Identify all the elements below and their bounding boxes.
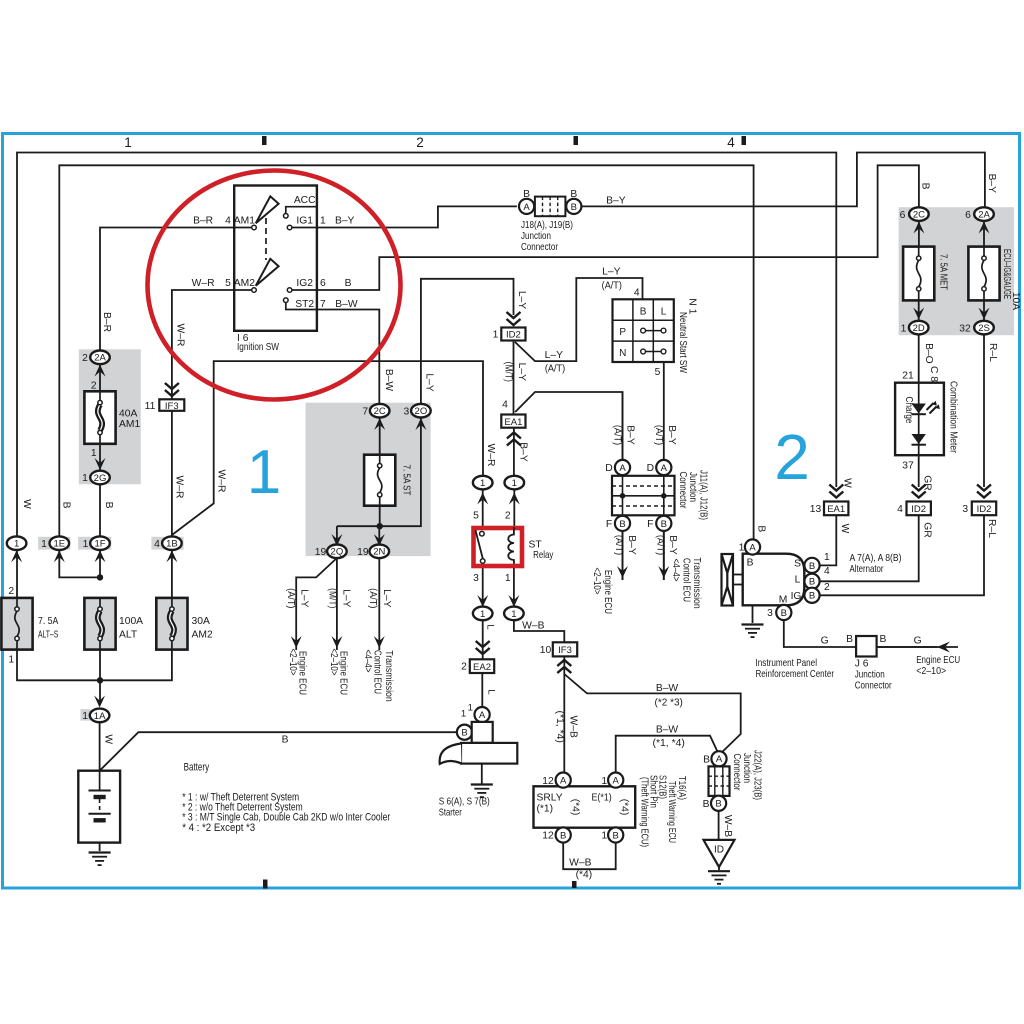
ignition switch AM1 stub bbox=[234, 227, 253, 229]
svg-text:L: L bbox=[484, 624, 495, 629]
connector IF3(10) bbox=[553, 642, 577, 656]
wire alternator B wire drop bbox=[753, 539, 755, 547]
svg-text:* 4 : *2 Except *3: * 4 : *2 Except *3 bbox=[182, 822, 255, 834]
node node alternator L bbox=[804, 574, 819, 589]
svg-text:13: 13 bbox=[810, 504, 822, 515]
svg-text:Battery: Battery bbox=[184, 762, 210, 774]
wire 2A to IG fuse bbox=[983, 221, 985, 247]
wire starter body to ground bbox=[481, 764, 483, 784]
node node J11 B left bbox=[615, 516, 630, 531]
node node starter B bbox=[457, 725, 472, 740]
alternator pulley bbox=[722, 554, 743, 606]
junction 1F/1E junction bbox=[97, 574, 103, 580]
node node 1E bbox=[50, 536, 70, 550]
svg-text:4: 4 bbox=[634, 288, 640, 299]
connector ID2(4) bbox=[907, 502, 931, 516]
svg-text:1: 1 bbox=[82, 711, 88, 722]
svg-text:GR: GR bbox=[921, 522, 932, 537]
wire B-Y circle to relay coil bbox=[513, 489, 515, 527]
svg-text:F: F bbox=[606, 519, 612, 530]
wire SRLY bottom link bbox=[563, 843, 616, 869]
svg-text:4: 4 bbox=[502, 399, 508, 410]
red highlight ellipse around ignition switch bbox=[148, 171, 401, 400]
svg-text:12: 12 bbox=[542, 776, 554, 787]
wire ST fuse to bus bbox=[379, 506, 381, 527]
wire 1B fuse top bbox=[171, 550, 173, 598]
arrow into 2O bbox=[415, 418, 426, 430]
arrow engine ECU j11 bbox=[617, 566, 628, 578]
contact IG2 bbox=[287, 288, 292, 293]
arrow into 1F bbox=[95, 550, 106, 562]
svg-text:1: 1 bbox=[601, 831, 607, 842]
junction fuse bus junction bbox=[97, 677, 103, 683]
svg-text:1: 1 bbox=[247, 438, 281, 507]
node node alternator IG bbox=[804, 588, 819, 603]
svg-text:W–R: W–R bbox=[192, 278, 215, 289]
arrow relay right bbox=[509, 493, 520, 505]
svg-text:W–R: W–R bbox=[174, 476, 185, 499]
node node J11 B right bbox=[656, 516, 671, 531]
svg-text:B–O: B–O bbox=[923, 343, 934, 364]
svg-text:J11(A), J12(B): J11(A), J12(B) bbox=[698, 470, 709, 520]
wire 2C(7) to ST fuse bbox=[379, 418, 381, 455]
connector EA1(13) bbox=[824, 502, 848, 516]
svg-text:Combination Meter: Combination Meter bbox=[948, 381, 959, 453]
arrow trans ECU j11 bbox=[658, 566, 669, 578]
wire B-W *2*3 branch bbox=[564, 674, 740, 753]
svg-text:2: 2 bbox=[505, 511, 511, 522]
svg-text:1: 1 bbox=[480, 478, 485, 489]
arrow below relay right bbox=[508, 595, 519, 607]
wire 2Q to engine ECU M/T bbox=[336, 558, 338, 650]
svg-text:7. 5A: 7. 5A bbox=[38, 616, 58, 627]
svg-text:(A/T): (A/T) bbox=[653, 425, 664, 445]
svg-text:B: B bbox=[846, 634, 853, 645]
svg-text:Control ECU: Control ECU bbox=[372, 650, 383, 694]
svg-text:ALT–S: ALT–S bbox=[38, 629, 58, 640]
svg-text:B: B bbox=[613, 830, 619, 841]
node node SRLY A1 bbox=[608, 773, 623, 788]
node node 1B bbox=[162, 536, 182, 550]
svg-text:1: 1 bbox=[461, 709, 466, 720]
svg-text:B: B bbox=[920, 183, 931, 190]
svg-text:B: B bbox=[570, 189, 577, 200]
svg-text:5: 5 bbox=[473, 511, 479, 522]
ID ground triangle bbox=[704, 840, 735, 867]
svg-text:19: 19 bbox=[315, 547, 327, 558]
gray chip 1E bbox=[38, 537, 70, 550]
svg-text:B–R: B–R bbox=[101, 312, 112, 332]
gray chip 1F bbox=[78, 537, 111, 550]
svg-text:B: B bbox=[703, 799, 710, 810]
svg-text:F: F bbox=[647, 519, 653, 530]
svg-text:(A/T): (A/T) bbox=[367, 588, 378, 608]
arrow into 2A(6) bbox=[979, 222, 990, 234]
bottom scale tick 2 bbox=[572, 881, 577, 888]
wire ST2 B-W to 2C(7) bbox=[317, 310, 379, 404]
svg-text:B–Y: B–Y bbox=[986, 174, 997, 194]
svg-text:Neutral Start SW: Neutral Start SW bbox=[677, 312, 688, 373]
svg-text:(M/T): (M/T) bbox=[327, 588, 338, 608]
svg-text:EA1: EA1 bbox=[827, 504, 845, 515]
svg-text:C 8: C 8 bbox=[928, 366, 939, 382]
ignition switch IG1 stub bbox=[292, 227, 317, 229]
svg-text:B–Y: B–Y bbox=[518, 442, 529, 462]
svg-text:1: 1 bbox=[901, 323, 907, 334]
svg-text:7. 5A MET: 7. 5A MET bbox=[938, 254, 949, 291]
svg-text:7: 7 bbox=[362, 406, 368, 417]
svg-text:4: 4 bbox=[225, 215, 231, 226]
svg-text:A: A bbox=[619, 463, 626, 474]
svg-text:B: B bbox=[661, 519, 667, 530]
wire W-R from AM2 to IF3 to 1B bbox=[172, 290, 234, 536]
svg-text:EA1: EA1 bbox=[504, 417, 522, 428]
svg-text:2A: 2A bbox=[978, 210, 990, 221]
chevron ID2(1) bbox=[507, 312, 521, 325]
svg-text:2A: 2A bbox=[94, 353, 106, 364]
wire IG fuse to 2S bbox=[983, 300, 985, 321]
svg-text:IF3: IF3 bbox=[558, 645, 572, 656]
wire J11 B-Y arrows tails bbox=[623, 531, 664, 580]
svg-text:ALT: ALT bbox=[119, 629, 138, 640]
node node relay 1 left bbox=[473, 476, 493, 490]
wire 1E to 1F junction bbox=[59, 550, 100, 578]
svg-text:Ignition SW: Ignition SW bbox=[237, 342, 279, 353]
chevron IF3(11) bbox=[165, 383, 179, 396]
svg-text:W–B: W–B bbox=[568, 716, 579, 738]
svg-text:L–Y: L–Y bbox=[602, 267, 620, 278]
top scale tick 3 bbox=[742, 136, 747, 145]
svg-text:<2–10>: <2–10> bbox=[328, 649, 339, 676]
svg-text:L: L bbox=[661, 307, 667, 318]
contact ACC bbox=[284, 214, 289, 219]
node node 2A bbox=[90, 351, 110, 365]
node node SRLY B1 bbox=[608, 827, 623, 842]
svg-text:B: B bbox=[781, 608, 787, 619]
svg-text:B: B bbox=[703, 755, 710, 766]
svg-text:1: 1 bbox=[511, 609, 516, 620]
svg-text:J 6: J 6 bbox=[855, 658, 869, 669]
svg-text:1: 1 bbox=[480, 609, 485, 620]
node node relay 1 right bbox=[505, 476, 525, 490]
fuse 30A AM2 bbox=[156, 598, 187, 650]
svg-text:B–R: B–R bbox=[193, 215, 213, 226]
arrow into 1E bbox=[54, 550, 65, 562]
svg-text:Instrument Panel: Instrument Panel bbox=[756, 658, 818, 669]
connector EA1(4) bbox=[501, 415, 525, 428]
fuse 7.5A MET bbox=[903, 247, 934, 301]
arrow into 2C(7) bbox=[374, 418, 385, 430]
arrow engine ECU G bbox=[937, 642, 950, 653]
svg-text:N: N bbox=[619, 348, 626, 359]
svg-text:4: 4 bbox=[824, 566, 830, 577]
svg-text:5: 5 bbox=[655, 367, 661, 378]
bottom scale tick 1 bbox=[263, 880, 268, 889]
arrow into 2S bbox=[979, 308, 990, 320]
svg-text:A: A bbox=[716, 754, 723, 765]
node node 2O bbox=[411, 404, 431, 418]
wire W-B IF3(10) down to SRLY A12 bbox=[563, 656, 565, 772]
svg-text:2C: 2C bbox=[913, 210, 925, 221]
svg-text:B: B bbox=[571, 202, 577, 213]
svg-text:IG: IG bbox=[791, 591, 802, 602]
wire MET fuse to 2D bbox=[918, 300, 920, 321]
svg-text:ACC: ACC bbox=[294, 195, 316, 206]
battery ground bbox=[89, 853, 111, 866]
svg-text:SRLY: SRLY bbox=[537, 793, 563, 804]
svg-text:W: W bbox=[839, 524, 850, 534]
node node J22 B bbox=[711, 796, 726, 811]
wire L-Y M/T ID2(1) to EA1(4) bbox=[513, 341, 515, 415]
wire IG2 B to 2C bbox=[317, 165, 919, 290]
svg-text:(*4): (*4) bbox=[570, 799, 581, 816]
svg-text:6: 6 bbox=[320, 278, 326, 289]
svg-text:IG1: IG1 bbox=[296, 215, 313, 226]
wire W-R to ST relay bbox=[172, 361, 483, 535]
svg-text:Reinforcement Center: Reinforcement Center bbox=[756, 669, 835, 680]
node node 1A bbox=[90, 709, 110, 723]
svg-text:B–Y: B–Y bbox=[625, 425, 636, 445]
svg-text:ST: ST bbox=[529, 540, 543, 551]
svg-text:7: 7 bbox=[320, 299, 326, 310]
svg-text:W–R: W–R bbox=[485, 444, 496, 467]
svg-text:E(*1): E(*1) bbox=[592, 793, 612, 804]
svg-text:4: 4 bbox=[154, 539, 160, 550]
chevron EA1(13) bbox=[829, 485, 843, 498]
wire meter to ID2(4) bbox=[918, 455, 920, 487]
svg-text:B–Y: B–Y bbox=[606, 196, 626, 207]
svg-text:J22(A), J23(B): J22(A), J23(B) bbox=[752, 750, 763, 800]
svg-text:G: G bbox=[821, 636, 829, 647]
svg-text:B: B bbox=[809, 561, 815, 572]
svg-text:B–Y: B–Y bbox=[666, 425, 677, 445]
battery bbox=[78, 771, 120, 843]
wire battery minus to ground bbox=[99, 821, 101, 852]
op neutral start switch N1 bbox=[613, 299, 674, 362]
chevron ID2(4) bbox=[912, 485, 926, 498]
svg-text:D: D bbox=[647, 463, 654, 474]
chevron IF3(10) bbox=[557, 660, 571, 673]
node node 2G bbox=[90, 471, 110, 485]
svg-text:L: L bbox=[486, 689, 497, 694]
svg-text:L–Y: L–Y bbox=[381, 589, 392, 607]
wire N1 B-Y A/T left drop bbox=[622, 392, 624, 460]
svg-text:ST2: ST2 bbox=[295, 299, 314, 310]
svg-text:(M/T): (M/T) bbox=[503, 362, 514, 382]
svg-text:(*1): (*1) bbox=[537, 804, 554, 815]
wire J11 A wires through connector bbox=[623, 475, 664, 516]
svg-text:Transmission: Transmission bbox=[691, 557, 702, 609]
svg-text:2Q: 2Q bbox=[331, 547, 344, 558]
svg-text:IG2: IG2 bbox=[296, 278, 313, 289]
svg-text:B: B bbox=[461, 728, 467, 739]
wire battery to starter B bbox=[100, 732, 457, 771]
svg-text:5: 5 bbox=[225, 278, 231, 289]
op combination meter charge lamp bbox=[895, 383, 944, 456]
svg-text:2D: 2D bbox=[913, 323, 925, 334]
arrow into 2G bbox=[95, 458, 106, 470]
switch gang dashed link bbox=[265, 218, 267, 260]
svg-text:1: 1 bbox=[512, 478, 517, 489]
svg-text:2O: 2O bbox=[415, 406, 428, 417]
wire ID2(3) to alternator IG bbox=[820, 515, 984, 595]
wire J11 B wires down bbox=[623, 531, 664, 580]
svg-text:1F: 1F bbox=[94, 539, 105, 550]
gray shade MET/ECU-IG fuse block bbox=[899, 207, 1014, 335]
svg-text:1: 1 bbox=[468, 702, 473, 713]
gray shade AM1 fuse block bbox=[79, 349, 141, 484]
svg-text:EA2: EA2 bbox=[473, 662, 491, 673]
svg-text:L–Y: L–Y bbox=[516, 291, 527, 309]
svg-text:AM2: AM2 bbox=[192, 629, 213, 640]
node node J22 A bbox=[711, 751, 726, 766]
svg-text:2: 2 bbox=[824, 582, 830, 593]
node node 2C(6) bbox=[909, 207, 929, 221]
svg-text:ECU–IG&GAUGE: ECU–IG&GAUGE bbox=[1001, 249, 1012, 299]
node node 2A(6) bbox=[974, 207, 994, 221]
svg-text:S: S bbox=[794, 558, 801, 569]
contact ST2 bbox=[284, 298, 289, 303]
wire 1F to 2G bbox=[99, 484, 101, 577]
top scale tick 2 bbox=[574, 136, 579, 145]
wire AM1 fuse to 2G bbox=[99, 444, 101, 471]
node node J11 A right bbox=[656, 460, 671, 475]
ignition switch ACC stub bbox=[286, 207, 317, 214]
node node 2S bbox=[974, 321, 994, 335]
wire B-Y EA1(4) to relay circle bbox=[513, 428, 515, 476]
svg-text:A: A bbox=[560, 776, 567, 787]
svg-text:B: B bbox=[879, 634, 886, 645]
svg-text:B: B bbox=[345, 278, 352, 289]
svg-text:L–Y: L–Y bbox=[341, 589, 352, 607]
svg-text:B–W: B–W bbox=[656, 683, 679, 694]
svg-text:(*1, *4): (*1, *4) bbox=[554, 711, 565, 743]
svg-text:32: 32 bbox=[959, 323, 971, 334]
arrow into 2Q bbox=[331, 534, 342, 546]
svg-text:<2–10>: <2–10> bbox=[287, 649, 298, 676]
svg-text:B: B bbox=[640, 307, 647, 318]
svg-text:1B: 1B bbox=[166, 539, 178, 550]
connector EA2 bbox=[470, 659, 494, 673]
svg-text:Alternator: Alternator bbox=[850, 564, 884, 575]
svg-text:<4–4>: <4–4> bbox=[362, 650, 373, 673]
svg-text:Engine ECU: Engine ECU bbox=[338, 651, 349, 695]
svg-text:B: B bbox=[619, 519, 625, 530]
fuse 100A ALT bbox=[84, 598, 115, 650]
wire L-Y 2O to ID2(1) bbox=[421, 279, 514, 404]
wire J6 to engine ECU arrow bbox=[877, 646, 958, 648]
svg-text:1: 1 bbox=[505, 573, 511, 584]
node node J18 B bbox=[566, 199, 581, 214]
wire IG1 B-Y to junction connector A bbox=[317, 206, 517, 227]
wire 2S to ID2(3) bbox=[983, 334, 985, 487]
node node alternator S bbox=[804, 558, 819, 573]
svg-text:(*2 *3): (*2 *3) bbox=[655, 698, 683, 709]
wire 2N to transmission ECU bbox=[378, 558, 380, 650]
wire 2Q to engine ECU A/T bbox=[296, 558, 337, 650]
svg-text:Connector: Connector bbox=[521, 242, 558, 253]
svg-text:L: L bbox=[795, 575, 801, 586]
node node 2D bbox=[909, 321, 929, 335]
svg-text:ID2: ID2 bbox=[506, 330, 521, 341]
svg-text:Junction: Junction bbox=[855, 669, 885, 680]
svg-text:3: 3 bbox=[404, 406, 410, 417]
node node SRLY A12 bbox=[556, 773, 571, 788]
svg-text:A 7(A), A 8(B): A 7(A), A 8(B) bbox=[850, 553, 902, 564]
svg-text:Relay: Relay bbox=[533, 550, 554, 561]
arrow into 2D bbox=[913, 308, 924, 320]
arrow relay left bbox=[477, 493, 488, 505]
wire L EA2 to starter A bbox=[481, 673, 483, 707]
wire B-W *1*4 branch bbox=[616, 736, 718, 773]
svg-text:AM1: AM1 bbox=[119, 419, 140, 430]
svg-text:B: B bbox=[756, 525, 767, 532]
svg-text:1: 1 bbox=[124, 135, 132, 150]
svg-text:B: B bbox=[61, 502, 72, 509]
svg-text:ID2: ID2 bbox=[911, 504, 926, 515]
svg-text:1: 1 bbox=[8, 655, 14, 666]
svg-text:2: 2 bbox=[91, 380, 97, 391]
junction connector J18/J19 box bbox=[535, 197, 566, 217]
wire 1A to battery bbox=[99, 722, 101, 771]
svg-text:2: 2 bbox=[416, 135, 424, 150]
svg-text:1: 1 bbox=[824, 552, 830, 563]
ignition switch IG2 stub bbox=[292, 289, 317, 291]
svg-text:Junction: Junction bbox=[521, 231, 551, 242]
svg-text:21: 21 bbox=[902, 370, 914, 381]
svg-text:<2–10>: <2–10> bbox=[591, 568, 602, 595]
svg-text:2: 2 bbox=[8, 586, 14, 597]
svg-text:1: 1 bbox=[739, 543, 745, 554]
svg-text:(A/T): (A/T) bbox=[602, 281, 622, 292]
svg-text:(*4): (*4) bbox=[576, 870, 593, 881]
svg-text:1: 1 bbox=[41, 539, 47, 550]
connector IF3(11) bbox=[159, 399, 184, 411]
svg-text:B: B bbox=[523, 189, 530, 200]
wire alternator ground wire bbox=[752, 605, 754, 623]
node node below relay left bbox=[473, 607, 493, 621]
svg-text:ID: ID bbox=[714, 845, 724, 856]
svg-text:(*4): (*4) bbox=[619, 799, 630, 816]
svg-text:B: B bbox=[282, 735, 289, 746]
svg-text:(A/T): (A/T) bbox=[612, 425, 623, 445]
arrow into 2A bbox=[95, 365, 106, 377]
svg-text:L–Y: L–Y bbox=[516, 363, 527, 381]
svg-text:2: 2 bbox=[82, 353, 88, 364]
junction connector J11/J12 box bbox=[612, 476, 675, 516]
wire fuse bottom bus bbox=[17, 650, 172, 701]
svg-text:19: 19 bbox=[357, 547, 369, 558]
svg-text:1A: 1A bbox=[94, 711, 106, 722]
svg-text:<2–10>: <2–10> bbox=[916, 666, 946, 677]
wire B-Y N1 pin5 down bbox=[663, 362, 665, 460]
svg-text:2: 2 bbox=[774, 421, 810, 493]
gray shade ST fuse block bbox=[306, 403, 431, 556]
svg-text:(*1, *4): (*1, *4) bbox=[653, 738, 685, 749]
svg-text:Connector: Connector bbox=[855, 680, 892, 691]
svg-text:10: 10 bbox=[540, 645, 552, 656]
wire bus to 2Q bbox=[336, 526, 338, 545]
starter motor bbox=[440, 722, 518, 764]
arrow transmission ECU bbox=[374, 636, 385, 648]
connector ID2(3) bbox=[972, 502, 996, 516]
starter ground bbox=[471, 785, 493, 798]
svg-text:4: 4 bbox=[727, 135, 735, 150]
wire bus to 2N bbox=[378, 526, 380, 545]
svg-text:(Theft Warning ECU): (Theft Warning ECU) bbox=[639, 777, 650, 847]
wire B from 1E to instrument panel A bbox=[59, 165, 753, 539]
junction connector J22/J23 box bbox=[709, 766, 730, 796]
